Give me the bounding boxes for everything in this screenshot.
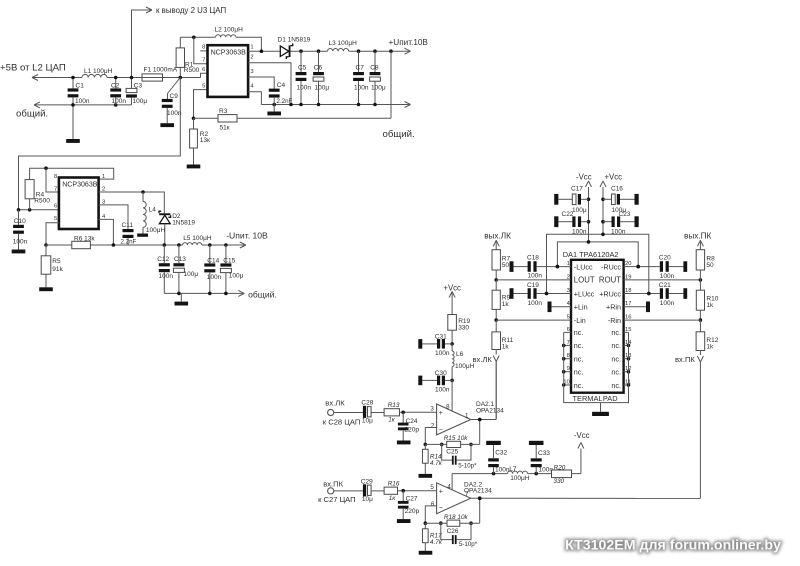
svg-text:R18 10k: R18 10k — [444, 514, 469, 521]
svg-text:C23: C23 — [619, 211, 631, 218]
svg-text:100μH: 100μH — [510, 475, 530, 482]
svg-text:100n: 100n — [435, 350, 450, 357]
svg-text:1k: 1k — [706, 343, 714, 350]
svg-text:220p: 220p — [405, 508, 420, 515]
svg-text:C21: C21 — [659, 282, 671, 289]
svg-text:220p: 220p — [404, 427, 419, 434]
svg-text:C25: C25 — [446, 448, 458, 455]
svg-text:+Lin: +Lin — [574, 302, 588, 311]
svg-text:L4: L4 — [149, 207, 157, 214]
svg-text:1: 1 — [250, 45, 253, 51]
svg-text:100n: 100n — [167, 110, 182, 117]
svg-text:6: 6 — [54, 203, 57, 209]
svg-text:17: 17 — [625, 301, 631, 307]
svg-text:-RUcc: -RUcc — [601, 262, 621, 271]
svg-text:TERMAL: TERMAL — [573, 394, 603, 403]
svg-text:1: 1 — [102, 174, 105, 180]
svg-text:R16: R16 — [388, 481, 400, 488]
svg-text:+5В от L2 ЦАП: +5В от L2 ЦАП — [0, 63, 66, 74]
svg-text:C20: C20 — [659, 255, 671, 262]
svg-text:5-10p*: 5-10p* — [458, 462, 477, 469]
svg-text:13к: 13к — [200, 137, 210, 144]
svg-text:2.2nF: 2.2nF — [277, 98, 293, 105]
svg-text:вх.ЛК: вх.ЛК — [473, 355, 493, 364]
svg-text:C29: C29 — [361, 478, 373, 485]
svg-text:100μ: 100μ — [371, 85, 386, 92]
svg-text:вых.ПК: вых.ПК — [684, 231, 711, 240]
svg-text:общий.: общий. — [383, 129, 415, 140]
svg-text:C3: C3 — [134, 82, 143, 89]
svg-text:-Uпит. 10В: -Uпит. 10В — [226, 230, 268, 240]
svg-text:100n: 100n — [75, 98, 90, 105]
svg-text:nc.: nc. — [574, 341, 584, 350]
svg-text:50: 50 — [502, 262, 510, 269]
svg-text:к С28 ЦАП: к С28 ЦАП — [323, 418, 361, 427]
svg-text:100n: 100n — [572, 228, 587, 235]
svg-text:nc.: nc. — [611, 328, 621, 337]
svg-text:50: 50 — [706, 262, 714, 269]
svg-text:C32: C32 — [495, 449, 507, 456]
svg-text:1N5819: 1N5819 — [172, 220, 195, 227]
svg-text:C26: C26 — [447, 528, 459, 535]
svg-text:8: 8 — [54, 174, 57, 180]
svg-text:nc.: nc. — [611, 355, 621, 364]
svg-text:6: 6 — [202, 67, 205, 73]
svg-text:330: 330 — [553, 478, 564, 485]
svg-text:NCP3063B: NCP3063B — [211, 49, 247, 56]
svg-text:10μ: 10μ — [362, 496, 373, 503]
svg-text:R15 10k: R15 10k — [444, 435, 469, 442]
svg-text:ROUT: ROUT — [599, 276, 621, 285]
svg-text:R13: R13 — [388, 402, 400, 409]
svg-text:−: − — [439, 426, 443, 433]
svg-text:1: 1 — [465, 412, 469, 419]
svg-text:100μ: 100μ — [133, 98, 148, 105]
svg-text:+: + — [439, 410, 443, 417]
svg-text:nc.: nc. — [574, 328, 584, 337]
svg-text:3: 3 — [250, 69, 253, 75]
svg-text:100μH: 100μH — [455, 363, 475, 370]
svg-text:+RUcc: +RUcc — [599, 289, 621, 298]
svg-text:100n: 100n — [112, 98, 127, 105]
svg-text:100n: 100n — [435, 386, 450, 393]
svg-text:C19: C19 — [527, 282, 539, 289]
svg-text:C22: C22 — [562, 211, 574, 218]
svg-text:100n: 100n — [13, 239, 28, 246]
svg-text:100n: 100n — [611, 228, 626, 235]
svg-text:C14: C14 — [207, 257, 219, 264]
svg-text:C9: C9 — [170, 93, 179, 100]
svg-text:R500: R500 — [34, 197, 50, 204]
svg-text:C10: C10 — [14, 218, 26, 225]
svg-text:8: 8 — [202, 45, 205, 51]
svg-text:R5: R5 — [52, 258, 61, 265]
svg-text:C16: C16 — [611, 185, 623, 192]
svg-text:4: 4 — [447, 483, 451, 490]
svg-text:100μ: 100μ — [229, 273, 244, 280]
svg-text:OPA2134: OPA2134 — [476, 407, 504, 414]
svg-text:100n: 100n — [660, 273, 675, 280]
svg-text:C4: C4 — [277, 82, 286, 89]
svg-text:5-10p*: 5-10p* — [459, 541, 478, 548]
svg-text:общий.: общий. — [16, 109, 48, 120]
svg-text:C17: C17 — [571, 185, 583, 192]
svg-text:100n: 100n — [159, 273, 174, 280]
svg-text:C11: C11 — [122, 222, 134, 229]
svg-text:DA1 ТРА6120А2: DA1 ТРА6120А2 — [563, 250, 619, 259]
svg-text:вх.ЛК: вх.ЛК — [325, 398, 345, 407]
svg-text:1к: 1к — [388, 416, 396, 423]
svg-text:100n: 100n — [660, 300, 675, 307]
svg-text:100μH: 100μH — [146, 227, 166, 234]
svg-text:C33: C33 — [538, 450, 550, 457]
svg-text:2: 2 — [431, 422, 435, 429]
svg-text:L2 100μH: L2 100μH — [215, 27, 244, 34]
svg-text:C15: C15 — [223, 257, 235, 264]
svg-text:КТ3102ЕМ для forum.onliner.by: КТ3102ЕМ для forum.onliner.by — [565, 538, 781, 554]
svg-text:5: 5 — [202, 83, 205, 89]
svg-text:2: 2 — [250, 55, 253, 61]
svg-text:-Vcc: -Vcc — [574, 431, 590, 440]
svg-text:L1 100μH: L1 100μH — [84, 68, 113, 75]
svg-text:-Rin: -Rin — [608, 316, 621, 325]
svg-text:91k: 91k — [52, 266, 63, 273]
svg-text:1k: 1k — [502, 343, 510, 350]
svg-text:−: − — [439, 505, 443, 512]
svg-text:C28: C28 — [361, 400, 373, 407]
svg-text:L7: L7 — [509, 466, 517, 473]
svg-text:R3: R3 — [219, 108, 228, 115]
svg-text:C5: C5 — [298, 64, 307, 71]
svg-text:C8: C8 — [370, 64, 379, 71]
svg-text:100μ: 100μ — [315, 85, 330, 92]
svg-text:-Vcc: -Vcc — [576, 173, 592, 182]
svg-text:C7: C7 — [356, 64, 365, 71]
svg-text:LOUT: LOUT — [574, 276, 595, 285]
svg-text:к выводу 2 U3 ЦАП: к выводу 2 U3 ЦАП — [156, 6, 226, 15]
svg-text:100n: 100n — [297, 85, 312, 92]
svg-text:+: + — [439, 489, 443, 496]
svg-text:OPA2134: OPA2134 — [464, 488, 492, 495]
svg-text:nc.: nc. — [611, 381, 621, 390]
svg-text:51к: 51к — [220, 124, 230, 131]
svg-text:nc.: nc. — [611, 341, 621, 350]
svg-text:100μ: 100μ — [184, 271, 199, 278]
svg-text:C1: C1 — [76, 83, 85, 90]
svg-text:100n: 100n — [528, 300, 543, 307]
svg-text:R20: R20 — [554, 464, 566, 471]
svg-text:NCP3063B: NCP3063B — [62, 182, 98, 189]
svg-text:R500: R500 — [184, 67, 200, 74]
svg-text:PAD: PAD — [603, 394, 618, 403]
svg-text:100μ: 100μ — [572, 207, 587, 214]
svg-text:4.7k: 4.7k — [430, 460, 443, 467]
svg-text:nc.: nc. — [574, 368, 584, 377]
svg-text:nc.: nc. — [574, 355, 584, 364]
svg-text:C6: C6 — [314, 64, 323, 71]
svg-text:7: 7 — [54, 187, 57, 193]
svg-text:вых.ЛК: вых.ЛК — [484, 231, 511, 240]
svg-text:-LUcc: -LUcc — [574, 262, 593, 271]
svg-text:L6: L6 — [456, 351, 464, 358]
svg-text:F1 1000mA: F1 1000mA — [144, 67, 178, 74]
svg-text:C13: C13 — [174, 256, 186, 263]
svg-text:5: 5 — [54, 216, 57, 222]
svg-text:L5 100μH: L5 100μH — [183, 235, 212, 242]
svg-text:+Vcc: +Vcc — [605, 173, 623, 182]
svg-text:общий.: общий. — [248, 289, 277, 299]
svg-text:+Rin: +Rin — [606, 302, 621, 311]
svg-text:nc.: nc. — [574, 381, 584, 390]
svg-text:+Vcc: +Vcc — [443, 283, 461, 292]
svg-text:вх.ПК: вх.ПК — [675, 355, 695, 364]
svg-text:C27: C27 — [406, 495, 418, 502]
svg-text:nc.: nc. — [611, 368, 621, 377]
svg-text:C24: C24 — [406, 418, 418, 425]
svg-text:C31: C31 — [435, 333, 447, 340]
svg-text:1k: 1k — [502, 301, 510, 308]
svg-text:L3 100μH: L3 100μH — [329, 40, 358, 47]
svg-text:+Uпит.10В: +Uпит.10В — [389, 38, 429, 47]
svg-text:к С27 ЦАП: к С27 ЦАП — [318, 495, 356, 504]
svg-text:330: 330 — [458, 325, 469, 332]
svg-text:3: 3 — [430, 405, 434, 412]
svg-text:C2: C2 — [111, 82, 120, 89]
svg-text:10μ: 10μ — [362, 418, 373, 425]
svg-text:C30: C30 — [435, 370, 447, 377]
svg-text:1k: 1k — [706, 302, 714, 309]
svg-text:100n: 100n — [207, 274, 222, 281]
svg-text:100n: 100n — [354, 85, 369, 92]
svg-text:100n: 100n — [528, 273, 543, 280]
svg-text:1к: 1к — [389, 495, 397, 502]
svg-text:2.2nF: 2.2nF — [121, 238, 137, 245]
svg-text:C18: C18 — [527, 255, 539, 262]
svg-text:вх.ПК: вх.ПК — [323, 480, 343, 489]
svg-text:6: 6 — [431, 501, 435, 508]
svg-text:-Lin: -Lin — [574, 316, 586, 325]
svg-text:7: 7 — [202, 58, 205, 64]
svg-text:100n: 100n — [495, 467, 510, 474]
svg-text:5: 5 — [430, 484, 434, 491]
svg-text:D1 1N5819: D1 1N5819 — [278, 37, 311, 44]
svg-text:R6 13k: R6 13k — [74, 235, 95, 242]
svg-text:C12: C12 — [157, 256, 169, 263]
svg-text:+LUcc: +LUcc — [574, 289, 595, 298]
